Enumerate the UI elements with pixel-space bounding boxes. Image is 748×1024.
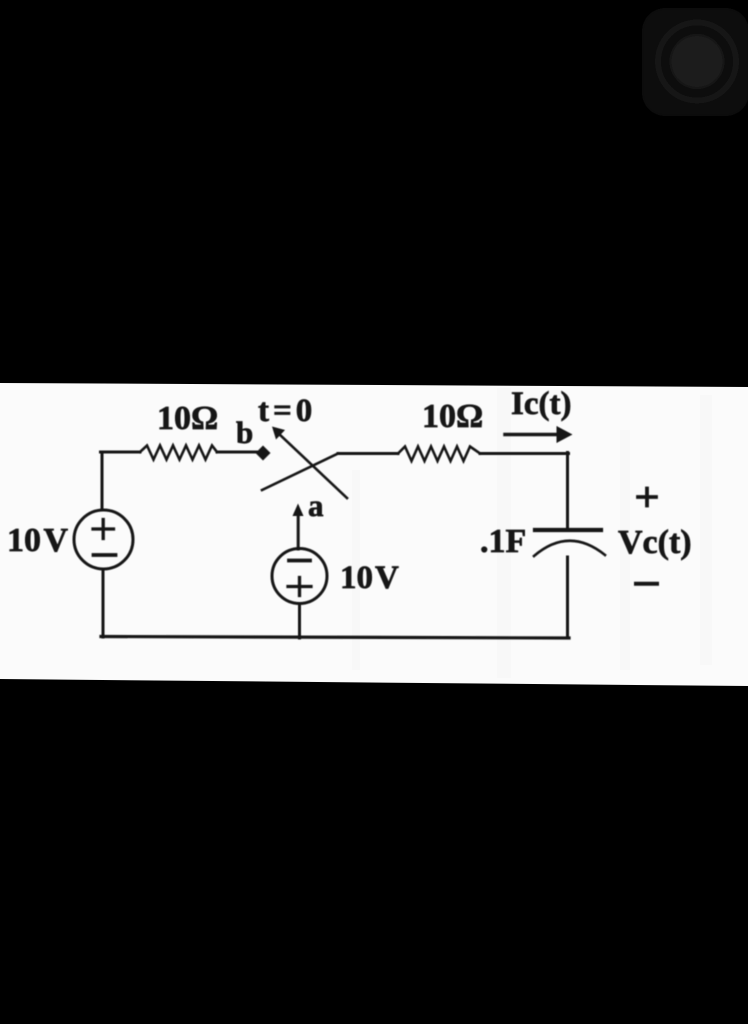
wire: right resistor to top-right corner (480, 452, 569, 455)
V2 plus sign (288, 578, 311, 596)
faint scan streaks on paper (352, 388, 712, 678)
wire: bottom horizontal (101, 637, 569, 639)
resistor 10ohm right (398, 447, 480, 462)
watermark shutter button top-right (642, 8, 748, 116)
wire: node a stem to source V2 (297, 514, 300, 549)
svg-text:t=0: t=0 (258, 393, 316, 429)
capacitor polarity plus (638, 489, 656, 506)
svg-text:a: a (308, 488, 324, 523)
white scanned paper band (0, 383, 748, 686)
voltage source V2 middle 10V circle (272, 549, 327, 604)
wire: capacitor to bottom-right corner (566, 557, 569, 638)
svg-text:b: b (236, 415, 253, 450)
wire: left vertical top (source to top-left corner) (101, 452, 104, 510)
V1 plus sign (93, 520, 114, 539)
node b contact dot (256, 446, 271, 461)
wire: left vertical bottom (102, 570, 105, 638)
svg-text:10: 10 (340, 560, 373, 596)
svg-text:10Ω: 10Ω (422, 398, 483, 435)
voltage source V1 left 10V circle (74, 510, 133, 569)
node a arrowhead (293, 504, 304, 517)
svg-text:10Ω: 10Ω (157, 400, 218, 437)
switch S moving arm with arrow (t=0) (279, 434, 348, 499)
svg-text:Vc(t): Vc(t) (618, 524, 692, 561)
capacitor polarity minus (636, 582, 657, 586)
Ic arrowhead (557, 426, 573, 443)
svg-text:V: V (44, 522, 69, 559)
current arrow Ic(t) (505, 433, 558, 437)
svg-text:10: 10 (7, 522, 41, 559)
wire: switch to right resistor (338, 452, 398, 455)
wire: top-left horizontal (101, 451, 141, 454)
switch arrowhead (272, 427, 285, 440)
resistor 10ohm left (140, 446, 217, 460)
wire: V2 to bottom wire (298, 604, 301, 639)
V2 minus sign (289, 559, 310, 563)
capacitor C top plate (535, 528, 601, 532)
svg-text:Ic(t): Ic(t) (511, 386, 571, 422)
wire: resistor to node b (217, 451, 257, 454)
svg-text:.1F: .1F (480, 523, 526, 560)
capacitor C bottom curved plate (534, 541, 605, 556)
svg-text:V: V (375, 560, 399, 596)
switch S blade (b side to right wire) (262, 454, 338, 491)
V1 minus sign (94, 553, 116, 557)
wire: right vertical down to capacitor (566, 453, 569, 529)
